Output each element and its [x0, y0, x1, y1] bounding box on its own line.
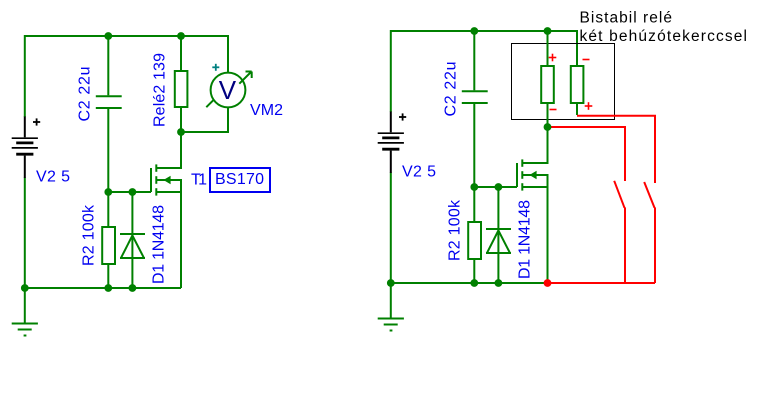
- svg-text:két behúzótekerccsel: két behúzótekerccsel: [580, 28, 748, 45]
- svg-text:VM2: VM2: [250, 102, 283, 119]
- battery V2 top lead: [24, 117, 26, 138]
- relay Relé2 leads: [180, 36, 182, 71]
- wire gate node rail: [108, 191, 151, 193]
- battery V2 plus mark (right): [399, 113, 406, 120]
- voltmeter VM2 arrow: [239, 72, 251, 84]
- relay Relé2 body: [175, 71, 188, 107]
- svg-text:R2 100k: R2 100k: [447, 199, 464, 261]
- resistor R2 body (right): [468, 222, 481, 259]
- diode D1 wire: [131, 192, 133, 288]
- transistor T1 gate: [150, 168, 152, 192]
- transistor T1 drain wire: [157, 132, 181, 168]
- ground right: [378, 283, 404, 331]
- switch 1 lower wire: [624, 208, 626, 284]
- svg-text:BS170: BS170: [215, 171, 264, 188]
- capacitor C2 plates (right): [462, 90, 488, 92]
- transistor T1 source/body wire: [157, 180, 181, 288]
- red junction dot: [544, 279, 552, 287]
- coil 2 bottom lead: [576, 103, 578, 115]
- label box BS170: [210, 168, 270, 192]
- coil 1 body: [541, 66, 554, 103]
- svg-text:D1 1N4148: D1 1N4148: [151, 205, 168, 284]
- switch 2 lower wire: [654, 208, 656, 284]
- red wire from drain node to switch 1: [549, 127, 626, 181]
- wire gate node rail (right): [474, 186, 517, 188]
- wire top rail left: [25, 36, 228, 117]
- capacitor C2 wires (right): [473, 31, 475, 90]
- svg-text:R2 100k: R2 100k: [81, 204, 98, 266]
- svg-text:D1 1N4148: D1 1N4148: [517, 200, 534, 279]
- ground left: [12, 288, 38, 336]
- battery V2 plates (right): [378, 133, 404, 149]
- wire bottom rail left: [25, 178, 181, 289]
- red wire from coil2 to switch 2: [577, 116, 655, 183]
- relay frame box: [512, 44, 615, 120]
- svg-text:V2 5: V2 5: [402, 164, 436, 181]
- coil 2 body: [571, 66, 584, 103]
- capacitor C2 plates: [96, 95, 122, 97]
- switch 2 blade: [644, 182, 654, 208]
- red bottom rail: [548, 282, 656, 284]
- diode D1 wire (right): [497, 187, 499, 283]
- svg-text:Bistabil relé: Bistabil relé: [580, 9, 673, 26]
- junction dots left: [21, 32, 185, 292]
- capacitor C2 wires: [107, 36, 109, 95]
- battery V2 bottom lead: [24, 156, 26, 178]
- voltmeter VM2 plus mark: [212, 64, 219, 71]
- diode D1 triangle: [121, 236, 143, 258]
- transistor T1 body arrow: [163, 176, 170, 184]
- battery V2 top lead (right): [390, 112, 392, 133]
- svg-text:T1: T1: [191, 172, 207, 189]
- voltmeter VM2 minus tick: [206, 100, 213, 107]
- battery V2 plates: [12, 138, 38, 154]
- diode D1 cathode bar (right): [486, 228, 511, 230]
- switch 1 blade: [614, 181, 624, 208]
- transistor source/body wire (right): [523, 175, 548, 283]
- svg-text:C2 22u: C2 22u: [443, 62, 460, 117]
- svg-text:V2 5: V2 5: [36, 169, 70, 186]
- transistor drain wire (right): [523, 127, 548, 163]
- svg-text:Relé2 139: Relé2 139: [152, 53, 169, 127]
- diode D1 cathode bar: [120, 233, 145, 235]
- voltmeter VM2 wires: [181, 108, 228, 133]
- voltmeter VM2 circle: [211, 73, 246, 108]
- transistor channel bars (right): [521, 159, 523, 190]
- coil polarity marks red: [549, 54, 593, 110]
- svg-text:C2 22u: C2 22u: [77, 67, 94, 122]
- coil 1 leads: [547, 31, 549, 66]
- transistor body arrow (right): [529, 171, 536, 179]
- svg-text:V: V: [219, 75, 237, 105]
- junction dots right: [387, 27, 551, 287]
- diode D1 triangle (right): [487, 231, 509, 253]
- wire bottom rail right: [391, 173, 548, 284]
- battery V2 bottom lead (right): [390, 151, 392, 173]
- transistor gate (right): [516, 163, 518, 187]
- transistor T1 channel bars: [155, 164, 157, 195]
- resistor R2 leads (right): [473, 187, 475, 222]
- resistor R2 body: [102, 227, 115, 264]
- battery V2 plus mark: [33, 118, 40, 125]
- resistor R2 leads: [107, 192, 109, 227]
- wire top rail right: [391, 31, 577, 112]
